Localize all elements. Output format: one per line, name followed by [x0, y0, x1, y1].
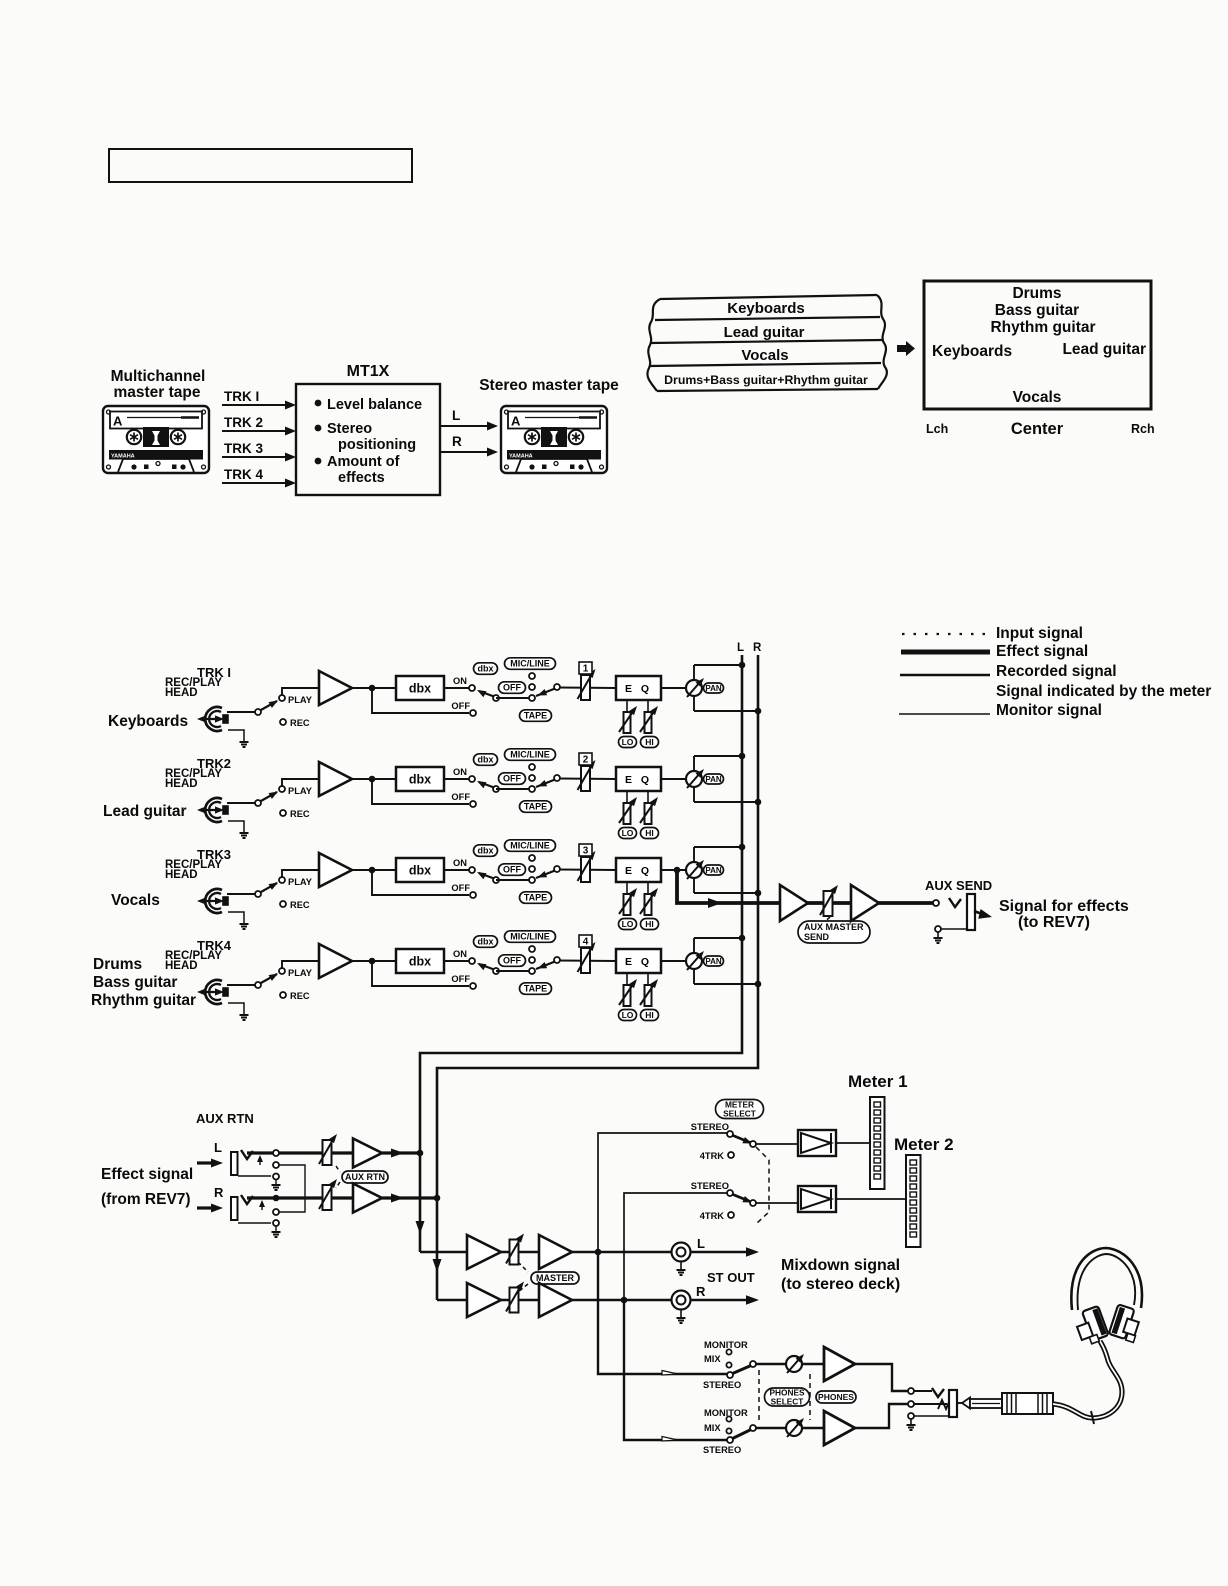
input selector TRK4 [529, 946, 535, 952]
legend effect signal [901, 650, 990, 655]
master gang dashes [518, 1262, 528, 1272]
svg-text:Drums+Bass guitar+Rhythm guita: Drums+Bass guitar+Rhythm guitar [664, 373, 868, 387]
junction meter pickup R [621, 1297, 628, 1304]
rec/play head TRK4 [205, 980, 222, 1004]
svg-text:Level balance: Level balance [327, 397, 422, 413]
svg-text:HI: HI [645, 828, 654, 838]
svg-text:dbx: dbx [409, 864, 431, 878]
rec/play switch TRK3 [255, 891, 261, 897]
stereo master cassette [501, 406, 607, 473]
pan pot TRK3 [693, 847, 695, 893]
svg-text:AUX RTN: AUX RTN [345, 1172, 385, 1182]
wire amp to dbx TRK4 [352, 960, 396, 962]
svg-text:4TRK: 4TRK [700, 1211, 725, 1221]
ground phono R [680, 1309, 682, 1317]
svg-text:MIC/LINE: MIC/LINE [510, 750, 550, 760]
svg-text:L: L [214, 1140, 222, 1155]
wire aux rtn L to bus [382, 1151, 418, 1154]
dbx box TRK4 [396, 949, 444, 973]
svg-text:ON: ON [453, 767, 467, 777]
svg-text:R: R [214, 1185, 224, 1200]
aux rtn amp R [353, 1184, 382, 1213]
wire dbx to switch TRK4 [444, 960, 469, 962]
master fader L [510, 1240, 519, 1265]
aux rtn label oval [342, 1171, 388, 1183]
wire pan to R bus TRK4 [694, 983, 758, 985]
svg-text:SEND: SEND [804, 932, 830, 942]
svg-text:3: 3 [583, 846, 589, 857]
svg-text:PAN: PAN [705, 866, 722, 875]
fader number box TRK4 [579, 935, 592, 947]
phones select label oval [765, 1388, 810, 1406]
wire switch to tape contact TRK3 [496, 879, 532, 881]
svg-text:L: L [697, 1236, 705, 1251]
svg-text:AUX MASTER: AUX MASTER [804, 922, 864, 932]
R bus wire [437, 655, 758, 1300]
svg-text:PLAY: PLAY [288, 695, 313, 705]
master amp R2 [539, 1283, 572, 1317]
svg-text:MONITOR: MONITOR [704, 1408, 748, 1418]
signal direction arrows TRK4 [200, 991, 220, 993]
svg-text:Drums: Drums [93, 956, 142, 973]
jack switch R [261, 1205, 263, 1210]
rec/play head TRK2 [205, 798, 222, 822]
play amp TRK4 [319, 944, 352, 978]
wire play to amp TRK3 [282, 870, 319, 878]
svg-text:Meter 1: Meter 1 [848, 1072, 908, 1091]
aux rtn amp L [353, 1139, 382, 1168]
svg-text:HEAD: HEAD [165, 869, 198, 881]
svg-text:OFF: OFF [451, 792, 470, 802]
aux send jack contact [933, 900, 939, 906]
four-track tape stack [660, 295, 877, 299]
svg-text:master tape: master tape [113, 384, 200, 401]
aux send jack [949, 898, 961, 907]
hi label oval TRK4 [641, 1010, 659, 1021]
off label oval TRK2 [499, 773, 526, 785]
master amp L1 [467, 1235, 501, 1269]
dbx label oval TRK1 [474, 663, 498, 675]
svg-text:dbx: dbx [409, 773, 431, 787]
wire driver to meter 1 [836, 1142, 870, 1144]
svg-text:Rch: Rch [1131, 422, 1155, 436]
wire switch to tape contact TRK4 [496, 970, 532, 972]
channel fader TRK3 [581, 857, 590, 882]
wire aux send [677, 870, 933, 903]
svg-text:dbx: dbx [409, 682, 431, 696]
svg-text:MIC/LINE: MIC/LINE [510, 659, 550, 669]
jack aux rtn L [231, 1152, 238, 1175]
aux rtn gang dashes [336, 1166, 340, 1172]
svg-text:PLAY: PLAY [288, 968, 313, 978]
fader number box TRK2 [579, 753, 592, 765]
svg-text:TAPE: TAPE [524, 711, 547, 721]
svg-text:E Q: E Q [625, 865, 652, 877]
svg-text:Mixdown signal: Mixdown signal [781, 1257, 900, 1274]
pan pot TRK1 [693, 665, 695, 711]
svg-text:dbx: dbx [477, 664, 493, 674]
svg-text:PHONES: PHONES [818, 1392, 854, 1402]
dbx label oval TRK2 [474, 754, 498, 766]
phones amp 1 [824, 1347, 855, 1381]
jack aux rtn R [231, 1197, 238, 1220]
phones jack sleeve bar [949, 1390, 957, 1417]
svg-text:SELECT: SELECT [723, 1108, 756, 1118]
svg-text:Rhythm guitar: Rhythm guitar [91, 992, 196, 1009]
lo label oval TRK4 [619, 1010, 637, 1021]
pan label oval TRK4 [704, 956, 724, 966]
svg-text:ON: ON [453, 858, 467, 868]
dbx box TRK2 [396, 767, 444, 791]
play amp TRK3 [319, 853, 352, 887]
ground aux rtn L jack [275, 1179, 277, 1184]
arrow st out R [746, 1295, 759, 1305]
lo label oval TRK2 [619, 828, 637, 839]
phones jack contact ring [908, 1401, 914, 1407]
aux rtn fader L [323, 1140, 332, 1165]
dbx label oval TRK4 [474, 936, 498, 948]
wire R to meter select 2 [624, 1193, 727, 1300]
svg-text:TRK 2: TRK 2 [224, 415, 263, 430]
svg-text:Lch: Lch [926, 422, 948, 436]
dbx box TRK1 [396, 676, 444, 700]
svg-text:Center: Center [1011, 420, 1064, 438]
phono out L [672, 1243, 691, 1262]
junction meter pickup L [595, 1249, 602, 1256]
svg-text:E Q: E Q [625, 774, 652, 786]
EQ hi fader TRK2 [647, 791, 649, 804]
svg-text:Effect signal: Effect signal [101, 1166, 193, 1183]
rec/play head TRK3 [205, 889, 222, 913]
headphones left cup [1082, 1306, 1109, 1341]
off label oval TRK1 [499, 682, 526, 694]
wire amp to dbx TRK1 [352, 687, 396, 689]
svg-text:OFF: OFF [503, 956, 521, 966]
svg-text:Rhythm guitar: Rhythm guitar [990, 319, 1095, 336]
svg-text:MASTER: MASTER [536, 1273, 575, 1283]
channel fader TRK4 [581, 948, 590, 973]
svg-text:Monitor signal: Monitor signal [996, 702, 1102, 719]
wire EQ to pan TRK4 [661, 960, 687, 962]
headphone cable [1053, 1341, 1122, 1418]
svg-text:Input signal: Input signal [996, 625, 1083, 642]
svg-text:Lead guitar: Lead guitar [103, 803, 187, 820]
wire driver to meter 2 [836, 1198, 906, 1200]
EQ hi fader TRK3 [647, 882, 649, 895]
EQ box TRK2 [616, 767, 661, 791]
wire dbx to switch TRK3 [444, 869, 469, 871]
wire selector to fader TRK4 [559, 960, 616, 963]
bullet amount of effects [315, 458, 322, 465]
EQ box TRK4 [616, 949, 661, 973]
play amp TRK1 [319, 671, 352, 705]
svg-text:STEREO: STEREO [691, 1181, 729, 1191]
wire aux rtn R to bus [382, 1196, 435, 1199]
svg-text:LO: LO [622, 828, 634, 838]
arrow effect R input [197, 1206, 213, 1209]
wire amp to dbx TRK2 [352, 778, 396, 780]
svg-text:Vocals: Vocals [1013, 389, 1062, 406]
svg-text:MT1X: MT1X [347, 363, 390, 380]
wire phones amp 1 to jack [855, 1364, 908, 1391]
svg-text:Meter 2: Meter 2 [894, 1135, 954, 1154]
svg-text:MIC/LINE: MIC/LINE [510, 841, 550, 851]
EQ box TRK1 [616, 676, 661, 700]
master fader R [510, 1288, 519, 1313]
mic/line label oval TRK2 [505, 749, 556, 761]
svg-text:PAN: PAN [705, 684, 722, 693]
ground under head TRK3 [228, 912, 244, 923]
lo label oval TRK1 [619, 737, 637, 748]
wire pan to L bus TRK2 [694, 755, 742, 757]
wire dbx to switch TRK2 [444, 778, 469, 780]
svg-text:E Q: E Q [625, 683, 652, 695]
wire play to amp TRK1 [282, 688, 319, 696]
svg-text:PLAY: PLAY [288, 786, 313, 796]
gang dashes meter select [756, 1147, 769, 1223]
EQ hi fader TRK4 [647, 973, 649, 986]
svg-text:Bass guitar: Bass guitar [995, 302, 1079, 319]
svg-text:STEREO: STEREO [703, 1380, 741, 1390]
svg-text:HI: HI [645, 1010, 654, 1020]
jack switch L [259, 1160, 261, 1165]
junction dbx input TRK1 [369, 685, 376, 692]
wire selector to fader TRK2 [559, 778, 616, 781]
aux master send label [822, 917, 830, 924]
svg-text:dbx: dbx [477, 846, 493, 856]
svg-text:ON: ON [453, 676, 467, 686]
wire switch to tape contact TRK2 [496, 788, 532, 790]
svg-text:ON: ON [453, 949, 467, 959]
EQ hi fader TRK1 [647, 700, 649, 713]
svg-text:Multichannel: Multichannel [111, 368, 206, 385]
svg-text:STEREO: STEREO [691, 1122, 729, 1132]
svg-text:(to REV7): (to REV7) [1018, 914, 1090, 931]
svg-text:TAPE: TAPE [524, 984, 547, 994]
fader number box TRK1 [579, 662, 592, 674]
wire switch to tape contact TRK1 [496, 697, 532, 699]
ground under head TRK4 [228, 1003, 244, 1014]
wire pan to L bus TRK1 [694, 664, 742, 666]
svg-text:HI: HI [645, 737, 654, 747]
svg-text:AUX SEND: AUX SEND [925, 878, 992, 893]
wire master R [437, 1299, 752, 1302]
svg-text:E Q: E Q [625, 956, 652, 968]
svg-text:Effect signal: Effect signal [996, 643, 1088, 660]
MT1X box [296, 384, 440, 495]
wire pan to R bus TRK1 [694, 710, 758, 712]
phones select gang dash [758, 1370, 760, 1424]
svg-text:L: L [737, 642, 744, 654]
svg-text:4TRK: 4TRK [700, 1151, 725, 1161]
ground under head TRK1 [228, 730, 244, 741]
dbx box TRK3 [396, 858, 444, 882]
junction dbx input TRK3 [369, 867, 376, 874]
header title box [109, 149, 412, 182]
svg-text:REC: REC [290, 809, 310, 819]
svg-text:Keyboards: Keyboards [932, 343, 1012, 360]
headphone plug [962, 1398, 970, 1409]
svg-text:HEAD: HEAD [165, 960, 198, 972]
svg-text:dbx: dbx [477, 937, 493, 947]
stereo image box [924, 281, 1151, 409]
svg-text:ST OUT: ST OUT [707, 1270, 755, 1285]
svg-text:Vocals: Vocals [741, 347, 788, 364]
svg-text:L: L [452, 408, 460, 423]
mic/line label oval TRK4 [505, 931, 556, 943]
svg-text:Stereo: Stereo [327, 421, 372, 437]
master amp R1 [467, 1283, 501, 1317]
phones jack contact tip [908, 1388, 914, 1394]
svg-text:REC: REC [290, 900, 310, 910]
master label oval [531, 1272, 579, 1284]
tape label oval TRK2 [520, 801, 552, 813]
svg-text:2: 2 [583, 755, 589, 766]
wire phones amp 2 to jack [855, 1404, 908, 1428]
wire dbx bypass TRK2 [372, 779, 469, 804]
svg-text:Keyboards: Keyboards [108, 713, 188, 730]
legend input signal [902, 633, 990, 635]
svg-text:MONITOR: MONITOR [704, 1340, 748, 1350]
svg-text:Lead guitar: Lead guitar [1062, 341, 1146, 358]
lo label oval TRK3 [619, 919, 637, 930]
ground aux rtn R jack [275, 1226, 277, 1231]
aux send amp 2 [851, 885, 879, 921]
play amp TRK2 [319, 762, 352, 796]
svg-text:R: R [452, 434, 462, 449]
EQ lo fader TRK1 [626, 700, 628, 713]
wire head to switch TRK3 [227, 893, 255, 895]
svg-text:(from REV7): (from REV7) [101, 1191, 191, 1208]
EQ lo fader TRK4 [626, 973, 628, 986]
svg-text:HEAD: HEAD [165, 778, 198, 790]
rec/play switch TRK1 [255, 709, 261, 715]
master amp L2 [539, 1235, 572, 1269]
rec/play switch TRK4 [255, 982, 261, 988]
wire pan to L bus TRK3 [694, 846, 742, 848]
wire head to switch TRK1 [227, 711, 255, 713]
svg-text:Signal indicated by the meter: Signal indicated by the meter [996, 683, 1211, 700]
wire normalling [279, 1165, 305, 1212]
wire EQ to pan TRK3 [661, 869, 687, 871]
meter driver 2 [798, 1186, 836, 1212]
EQ box TRK3 [616, 858, 661, 882]
wire dbx bypass TRK1 [372, 688, 469, 713]
svg-text:HEAD: HEAD [165, 687, 198, 699]
input selector TRK2 [529, 764, 535, 770]
aux master send fader [824, 891, 833, 916]
svg-text:MIX: MIX [704, 1354, 721, 1364]
svg-text:OFF: OFF [451, 701, 470, 711]
svg-text:PLAY: PLAY [288, 877, 313, 887]
wire play to amp TRK2 [282, 779, 319, 787]
wire EQ to pan TRK2 [661, 778, 687, 780]
wire L to meter select [598, 1133, 727, 1252]
svg-text:OFF: OFF [503, 683, 521, 693]
junction dbx input TRK4 [369, 958, 376, 965]
mic/line label oval TRK1 [505, 658, 556, 670]
arrow effect L input [197, 1161, 213, 1164]
svg-text:Vocals: Vocals [111, 892, 160, 909]
wire R jack to fader [247, 1196, 353, 1199]
wire to meter driver 1 [755, 1143, 798, 1145]
legend monitor signal [899, 713, 990, 715]
bullet stereo positioning [315, 425, 322, 432]
tape label oval TRK4 [520, 983, 552, 995]
pan label oval TRK1 [704, 683, 724, 693]
tape label oval TRK3 [520, 892, 552, 904]
signal direction arrows TRK2 [200, 809, 220, 811]
wire dbx to switch TRK1 [444, 687, 469, 689]
svg-text:OFF: OFF [451, 883, 470, 893]
off label oval TRK4 [499, 955, 526, 967]
pan pot TRK2 [693, 756, 695, 802]
svg-text:positioning: positioning [338, 437, 416, 453]
svg-text:(to stereo deck): (to stereo deck) [781, 1276, 900, 1293]
svg-text:TRK I: TRK I [224, 389, 259, 404]
input selector TRK3 [529, 855, 535, 861]
wire monitor 1 [755, 1363, 786, 1365]
phones jack contact sleeve [908, 1413, 914, 1419]
junction R line [273, 1195, 280, 1202]
EQ lo fader TRK2 [626, 791, 628, 804]
svg-text:REC: REC [290, 991, 310, 1001]
signal direction arrows TRK1 [200, 718, 220, 720]
signal direction arrows TRK3 [200, 900, 220, 902]
hi label oval TRK3 [641, 919, 659, 930]
svg-text:SELECT: SELECT [771, 1396, 804, 1406]
wire pan to R bus TRK3 [694, 892, 758, 894]
rec/play switch TRK2 [255, 800, 261, 806]
ground phono L [680, 1261, 682, 1269]
pan pot TRK4 [693, 938, 695, 984]
ground under head TRK2 [228, 821, 244, 832]
L bus wire [420, 655, 742, 1252]
ground aux send jack [937, 932, 939, 937]
legend recorded signal [900, 674, 990, 677]
bullet level balance [315, 400, 322, 407]
wire dbx bypass TRK4 [372, 961, 469, 986]
wire pan to R bus TRK2 [694, 801, 758, 803]
wire selector to fader TRK3 [559, 869, 616, 872]
wire selector to fader TRK1 [559, 687, 616, 690]
svg-text:LO: LO [622, 737, 634, 747]
wire master L [420, 1251, 752, 1254]
wire head to switch TRK2 [227, 802, 255, 804]
svg-text:LO: LO [622, 1010, 634, 1020]
aux rtn fader R [323, 1185, 332, 1210]
wire amp to dbx TRK3 [352, 869, 396, 871]
fader number box TRK3 [579, 844, 592, 856]
junction aux pickup TRK3 [674, 867, 681, 874]
arrow aux send output [974, 911, 982, 914]
svg-text:Signal for effects: Signal for effects [999, 898, 1129, 915]
svg-text:TAPE: TAPE [524, 893, 547, 903]
phono out R [672, 1291, 691, 1310]
wire play to amp TRK4 [282, 961, 319, 969]
mic/line label oval TRK3 [505, 840, 556, 852]
svg-text:Recorded signal: Recorded signal [996, 663, 1117, 680]
pan label oval TRK3 [704, 865, 724, 875]
arrow to stereo image [897, 341, 915, 356]
meter select label oval [716, 1100, 764, 1119]
channel fader TRK2 [581, 766, 590, 791]
svg-text:STEREO: STEREO [703, 1445, 741, 1455]
headphones right cup [1109, 1304, 1135, 1339]
EQ lo fader TRK3 [626, 882, 628, 895]
phones label oval [816, 1391, 856, 1403]
svg-text:1: 1 [583, 664, 589, 675]
